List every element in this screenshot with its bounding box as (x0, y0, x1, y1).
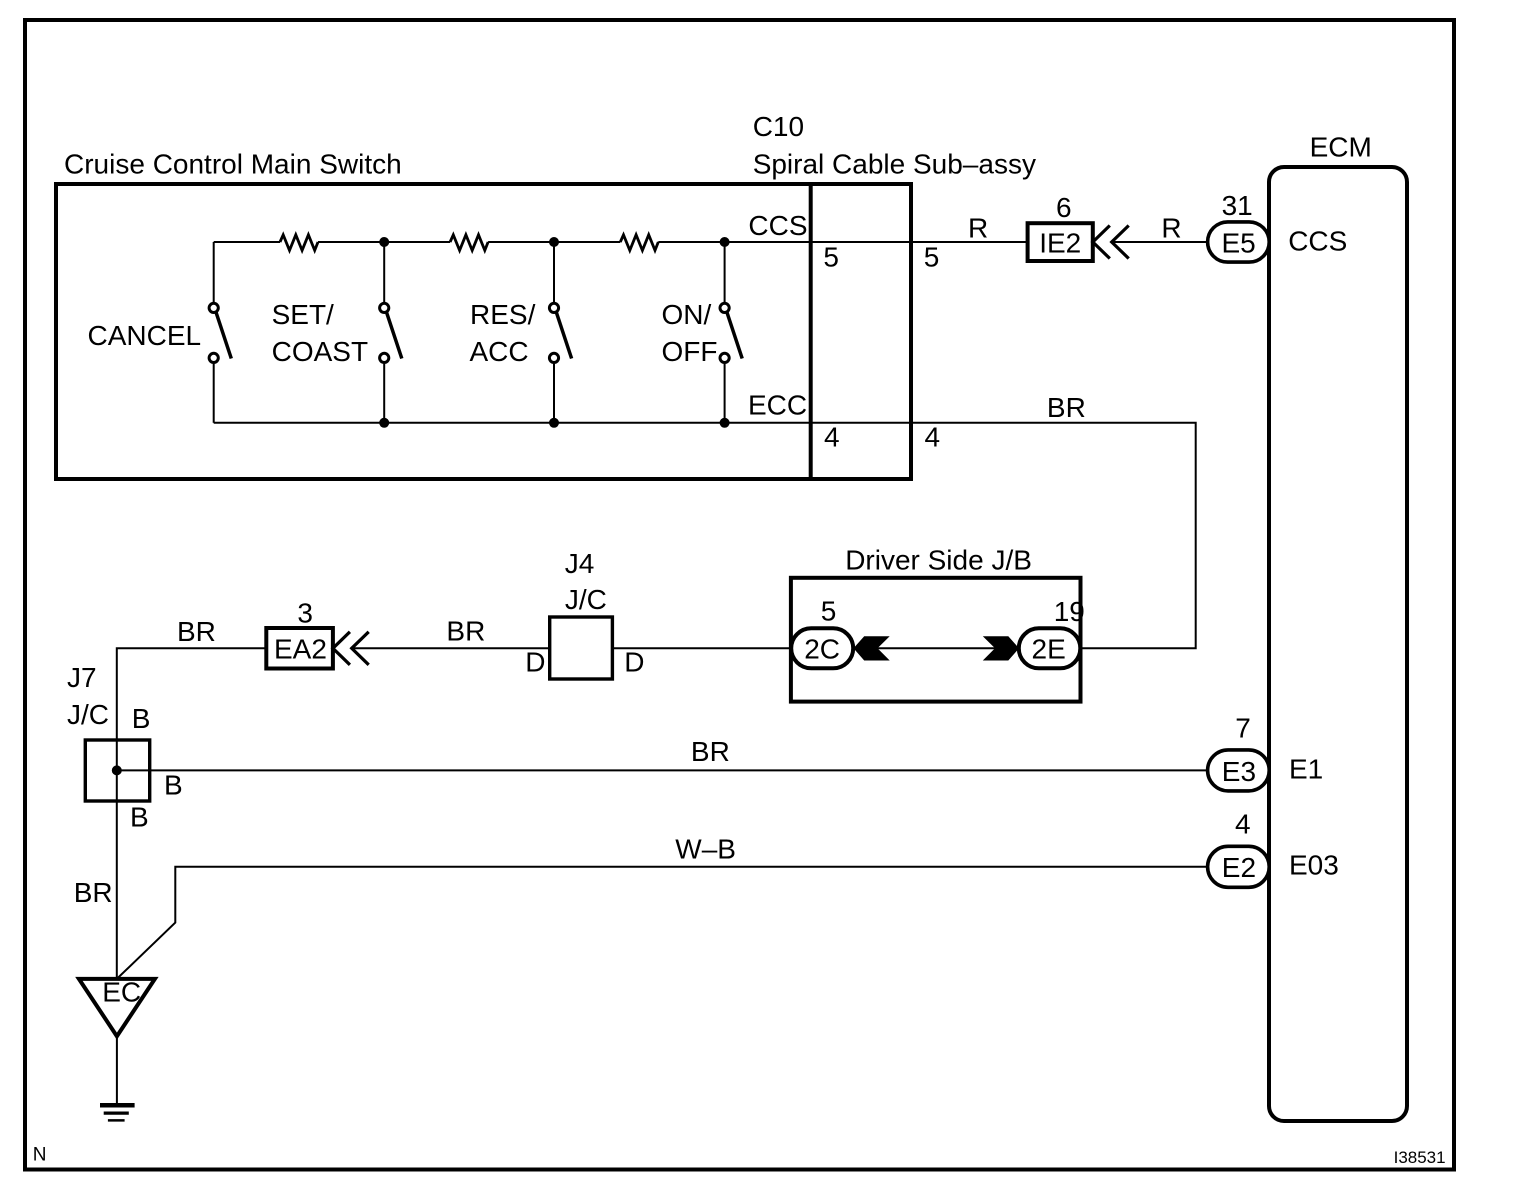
svg-text:C10: C10 (753, 111, 804, 142)
svg-text:E03: E03 (1289, 849, 1339, 880)
svg-text:4: 4 (824, 422, 840, 453)
svg-text:W–B: W–B (675, 833, 736, 864)
svg-text:19: 19 (1054, 596, 1085, 627)
svg-text:ACC: ACC (470, 336, 529, 367)
connector EA2 pin 3 (266, 598, 333, 669)
svg-text:J7: J7 (67, 662, 97, 693)
svg-text:2C: 2C (804, 634, 840, 665)
junction J4 J/C (525, 548, 644, 679)
svg-text:BR: BR (691, 736, 730, 767)
wire CCS top bus (214, 241, 1028, 243)
svg-text:Cruise Control Main Switch: Cruise Control Main Switch (64, 148, 402, 179)
svg-text:E3: E3 (1222, 756, 1256, 787)
splice arrows at EA2 (333, 632, 369, 665)
svg-text:B: B (164, 770, 183, 801)
svg-text:B: B (130, 802, 149, 833)
svg-text:OFF: OFF (662, 336, 718, 367)
svg-text:CANCEL: CANCEL (88, 320, 202, 351)
connector E2 pin 4 (1208, 808, 1270, 887)
connector 2E pin 19 (1019, 596, 1085, 668)
svg-text:BR: BR (446, 616, 485, 647)
resistor R1 (280, 235, 318, 251)
wire BR from J4 to 2C (612, 647, 791, 649)
resistor R2 (450, 235, 488, 251)
arrow left (to 2C) (854, 636, 890, 660)
svg-text:ECC: ECC (748, 390, 807, 421)
svg-text:Spiral Cable Sub–assy: Spiral Cable Sub–assy (753, 148, 1036, 179)
connector E5 pin 31 (1208, 190, 1270, 262)
svg-text:EA2: EA2 (274, 634, 327, 665)
svg-text:E1: E1 (1289, 753, 1323, 784)
wire W-B to E2 (117, 867, 1208, 979)
svg-text:5: 5 (821, 596, 837, 627)
svg-text:D: D (624, 646, 644, 677)
svg-text:BR: BR (74, 877, 113, 908)
svg-text:R: R (968, 212, 988, 243)
svg-text:3: 3 (297, 598, 313, 629)
svg-text:E2: E2 (1222, 852, 1256, 883)
svg-text:7: 7 (1235, 712, 1251, 743)
svg-text:R: R (1161, 212, 1181, 243)
svg-text:RES/: RES/ (470, 299, 536, 330)
connector C10 Spiral Cable Sub-assy (753, 111, 1036, 481)
svg-text:SET/: SET/ (272, 299, 334, 330)
svg-text:5: 5 (924, 241, 940, 272)
svg-text:COAST: COAST (272, 336, 368, 367)
wire BR from J7 corner to EA2 (117, 648, 266, 979)
wire to ground (116, 1036, 118, 1103)
svg-text:EC: EC (102, 976, 141, 1007)
box Cruise Control Main Switch (56, 148, 911, 479)
svg-text:E5: E5 (1222, 228, 1256, 259)
switch CANCEL (88, 242, 232, 423)
junction dots top bus (379, 237, 729, 247)
switch ON/OFF (662, 242, 743, 423)
connector IE2 pin 6 (1028, 192, 1093, 261)
svg-text:J4: J4 (565, 548, 595, 579)
wire R to E5 (1112, 241, 1208, 243)
switch SET/COAST (272, 242, 402, 423)
wire BR to E3 (E1 line) (117, 769, 1208, 771)
ECM block (1269, 131, 1407, 1121)
resistor R3 (620, 235, 658, 251)
svg-text:CCS: CCS (1288, 226, 1347, 257)
svg-text:ON/: ON/ (662, 299, 712, 330)
connector E3 pin 7 (1208, 712, 1270, 791)
svg-text:BR: BR (177, 616, 216, 647)
svg-text:CCS: CCS (748, 210, 807, 241)
wire between 2C and 2E (853, 647, 1018, 649)
svg-text:4: 4 (1235, 808, 1251, 839)
junction J7 J/C (67, 662, 183, 833)
svg-text:N: N (33, 1145, 47, 1166)
svg-text:Driver Side J/B: Driver Side J/B (845, 545, 1032, 576)
svg-text:I38531: I38531 (1394, 1148, 1446, 1167)
svg-text:5: 5 (823, 241, 839, 272)
node at J7 (112, 765, 122, 775)
svg-text:31: 31 (1222, 190, 1253, 221)
wire BR from EA2 to J4 (352, 647, 550, 649)
svg-text:BR: BR (1047, 392, 1086, 423)
svg-text:D: D (525, 646, 545, 677)
svg-text:2E: 2E (1032, 634, 1066, 665)
switch RES/ACC (470, 242, 572, 423)
splice arrows at IE2 (1093, 226, 1129, 259)
Driver Side J/B box (791, 545, 1081, 702)
svg-text:ECM: ECM (1310, 131, 1372, 162)
svg-text:J/C: J/C (565, 584, 607, 615)
junction dots bottom bus (379, 418, 729, 428)
svg-text:6: 6 (1056, 192, 1072, 223)
ground symbol (100, 1105, 135, 1120)
svg-text:4: 4 (925, 422, 941, 453)
ground EC triangle (79, 976, 155, 1036)
connector 2C pin 5 (791, 596, 853, 669)
arrow right (to 2E) (983, 636, 1019, 660)
svg-text:B: B (132, 703, 151, 734)
svg-text:IE2: IE2 (1039, 228, 1081, 259)
wire ECC bottom bus to Driver Side J/B (214, 423, 1196, 649)
svg-text:J/C: J/C (67, 699, 109, 730)
